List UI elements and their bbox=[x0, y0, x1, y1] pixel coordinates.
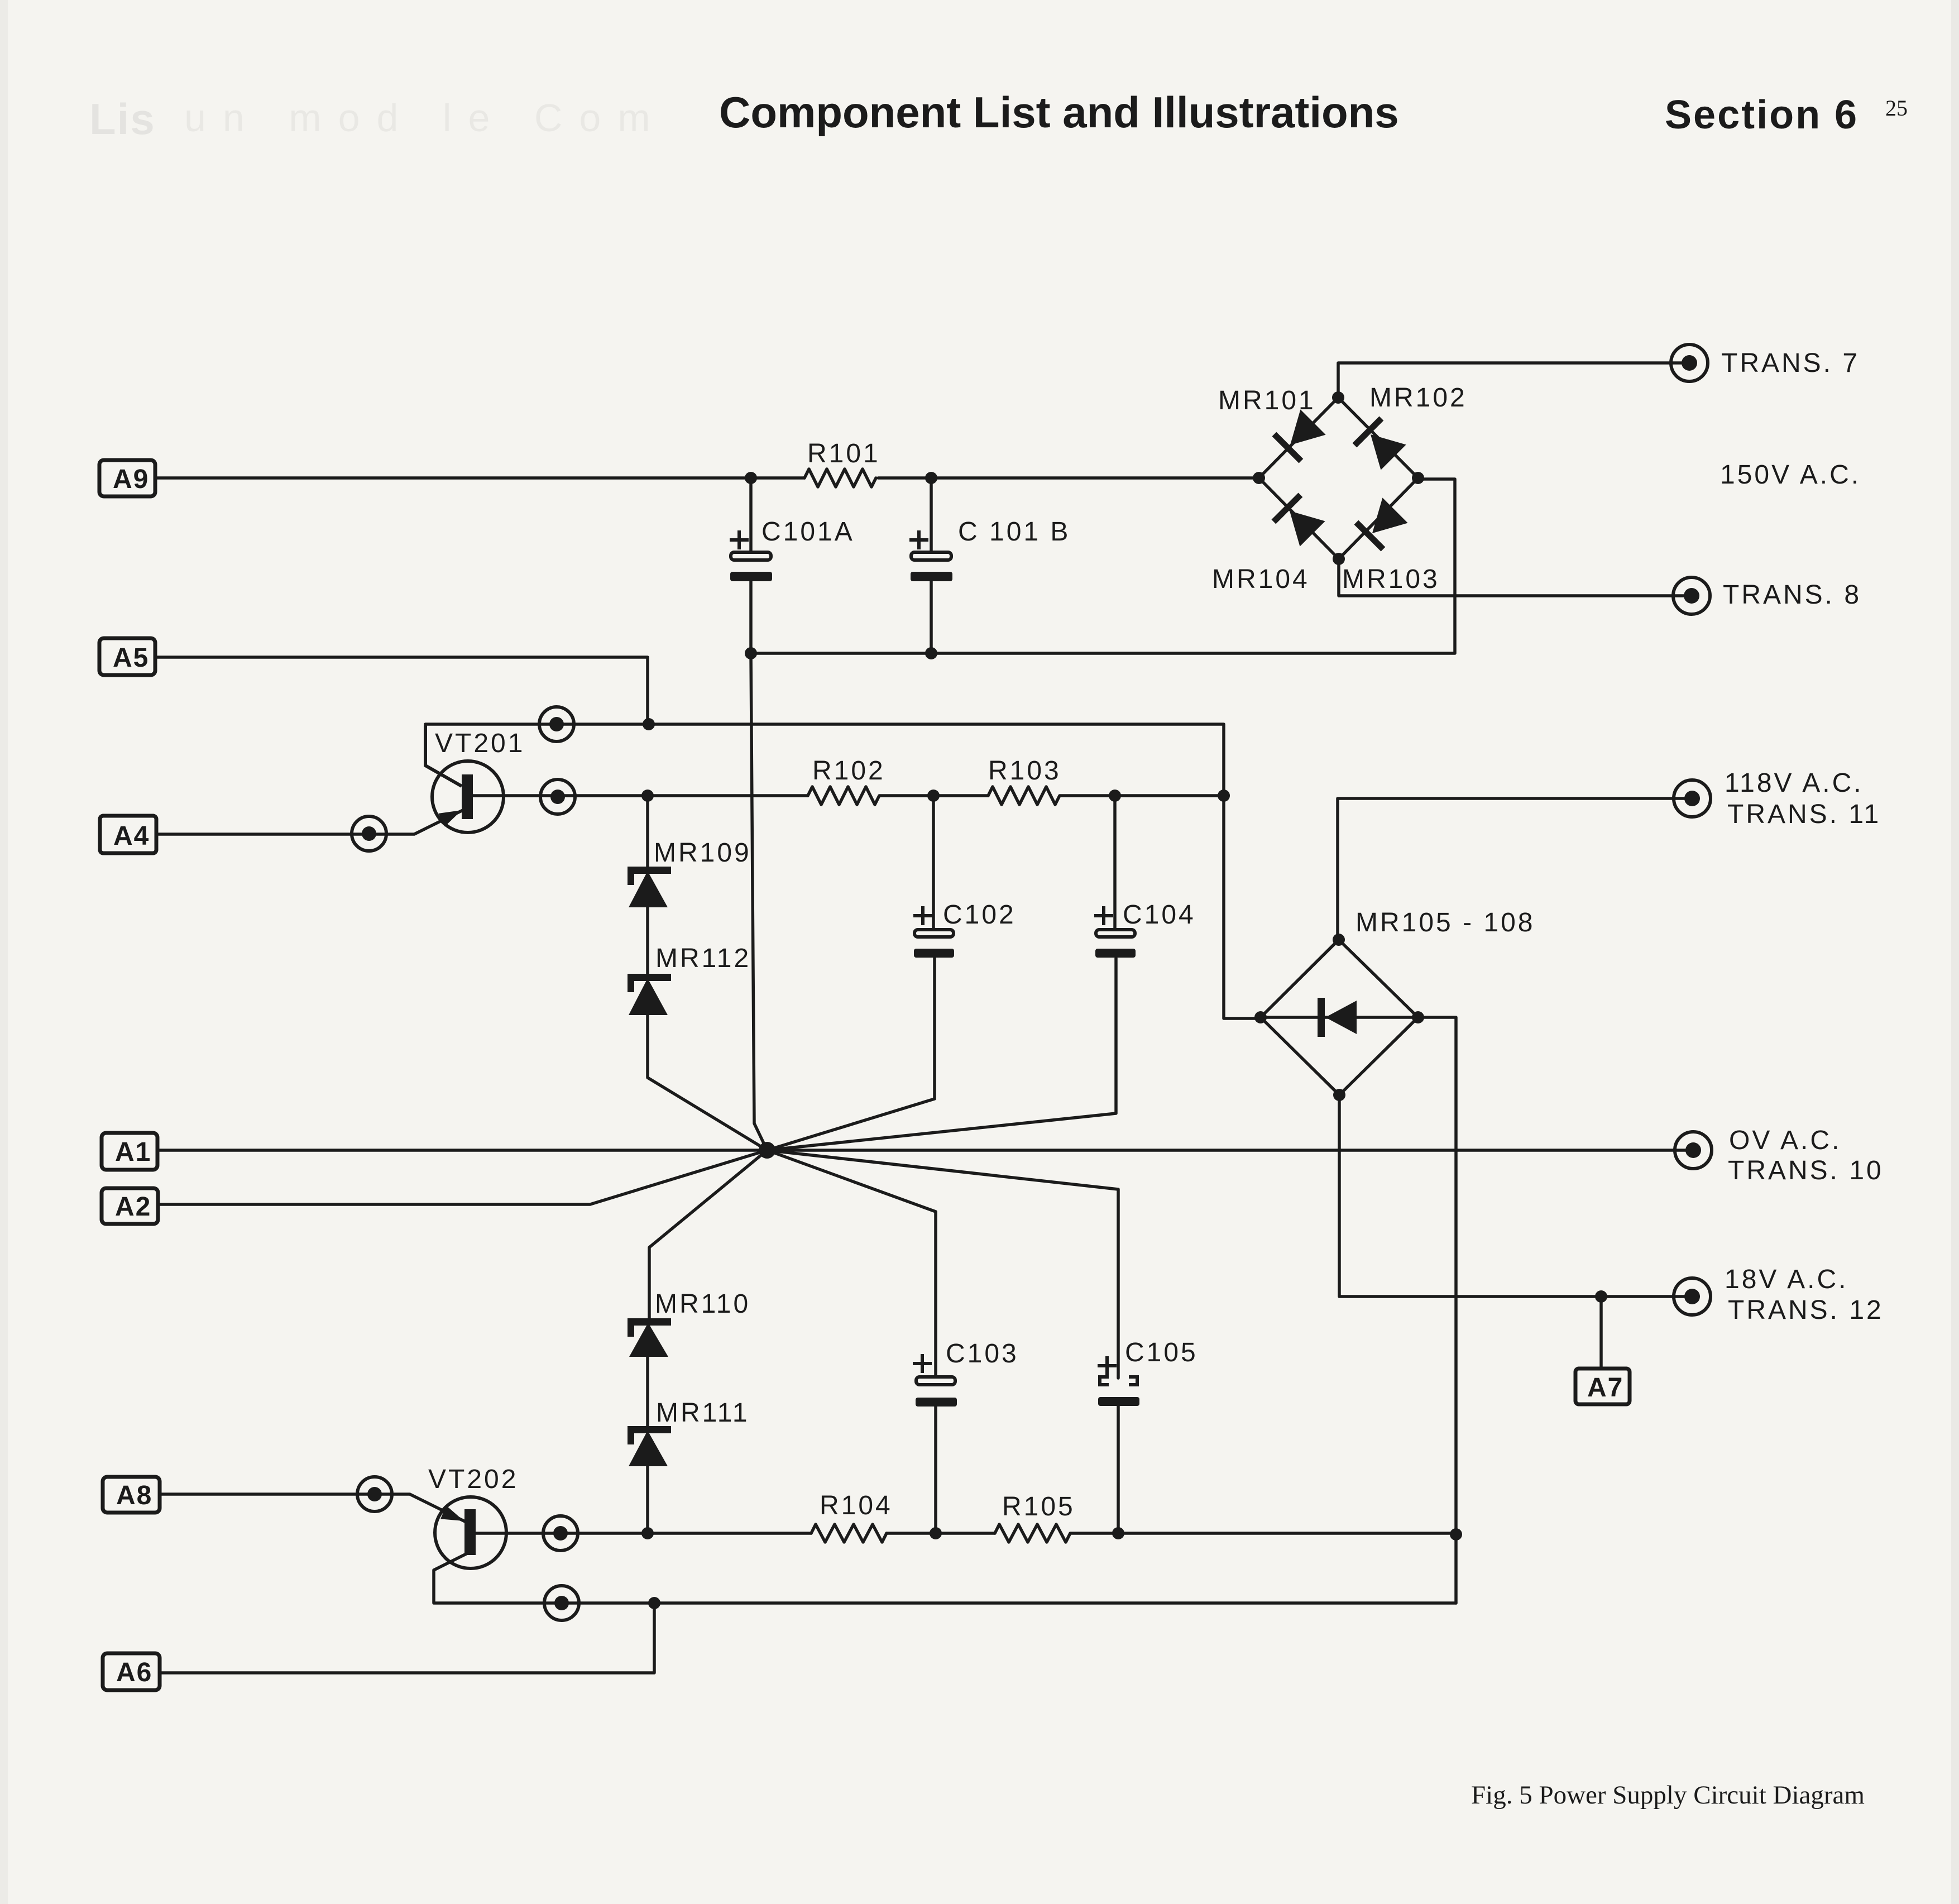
svg-text:C101A: C101A bbox=[761, 517, 855, 547]
svg-text:TRANS. 10: TRANS. 10 bbox=[1728, 1156, 1884, 1185]
svg-text:A6: A6 bbox=[116, 1658, 152, 1687]
svg-text:150V A.C.: 150V A.C. bbox=[1720, 460, 1861, 490]
svg-text:A7: A7 bbox=[1587, 1373, 1623, 1403]
svg-text:18V A.C.: 18V A.C. bbox=[1725, 1265, 1848, 1294]
svg-text:Fig. 5 Power Supply Circuit Di: Fig. 5 Power Supply Circuit Diagram bbox=[1471, 1781, 1865, 1810]
svg-text:MR101: MR101 bbox=[1218, 386, 1316, 415]
svg-text:118V A.C.: 118V A.C. bbox=[1725, 768, 1864, 798]
svg-text:R104: R104 bbox=[820, 1491, 893, 1520]
svg-text:OV A.C.: OV A.C. bbox=[1729, 1126, 1841, 1155]
svg-text:VT201: VT201 bbox=[435, 729, 525, 758]
svg-text:R102: R102 bbox=[812, 756, 885, 786]
svg-text:Section 6: Section 6 bbox=[1665, 93, 1859, 137]
svg-text:C105: C105 bbox=[1125, 1338, 1198, 1367]
svg-text:TRANS. 8: TRANS. 8 bbox=[1723, 580, 1861, 610]
svg-text:MR103: MR103 bbox=[1342, 564, 1440, 594]
svg-text:TRANS. 7: TRANS. 7 bbox=[1721, 348, 1860, 378]
svg-text:R103: R103 bbox=[988, 756, 1061, 786]
svg-text:A4: A4 bbox=[113, 821, 150, 851]
svg-text:MR110: MR110 bbox=[655, 1289, 750, 1319]
svg-text:A5: A5 bbox=[113, 643, 149, 673]
svg-text:25: 25 bbox=[1885, 95, 1908, 121]
svg-text:TRANS. 11: TRANS. 11 bbox=[1727, 800, 1881, 829]
svg-text:A2: A2 bbox=[115, 1192, 151, 1222]
svg-text:R105: R105 bbox=[1002, 1492, 1075, 1522]
svg-text:un mod le Com: un mod le Com bbox=[184, 96, 667, 140]
svg-text:MR111: MR111 bbox=[656, 1398, 750, 1428]
svg-text:A8: A8 bbox=[116, 1481, 152, 1510]
svg-text:A9: A9 bbox=[113, 465, 149, 494]
svg-text:MR104: MR104 bbox=[1212, 564, 1310, 594]
svg-text:C 101 B: C 101 B bbox=[958, 517, 1070, 547]
svg-text:MR102: MR102 bbox=[1369, 383, 1467, 413]
svg-text:C103: C103 bbox=[946, 1339, 1019, 1369]
svg-text:A1: A1 bbox=[115, 1137, 151, 1167]
svg-text:VT202: VT202 bbox=[428, 1465, 518, 1494]
svg-text:Lis: Lis bbox=[89, 94, 156, 143]
svg-text:Component List and Illustratio: Component List and Illustrations bbox=[719, 88, 1399, 137]
svg-text:MR105 - 108: MR105 - 108 bbox=[1356, 908, 1535, 937]
svg-text:MR109: MR109 bbox=[654, 838, 751, 868]
svg-text:C104: C104 bbox=[1123, 900, 1196, 930]
svg-text:R101: R101 bbox=[807, 439, 880, 468]
svg-text:MR112: MR112 bbox=[655, 944, 751, 973]
svg-text:C102: C102 bbox=[943, 900, 1016, 930]
svg-text:TRANS. 12: TRANS. 12 bbox=[1728, 1295, 1884, 1325]
